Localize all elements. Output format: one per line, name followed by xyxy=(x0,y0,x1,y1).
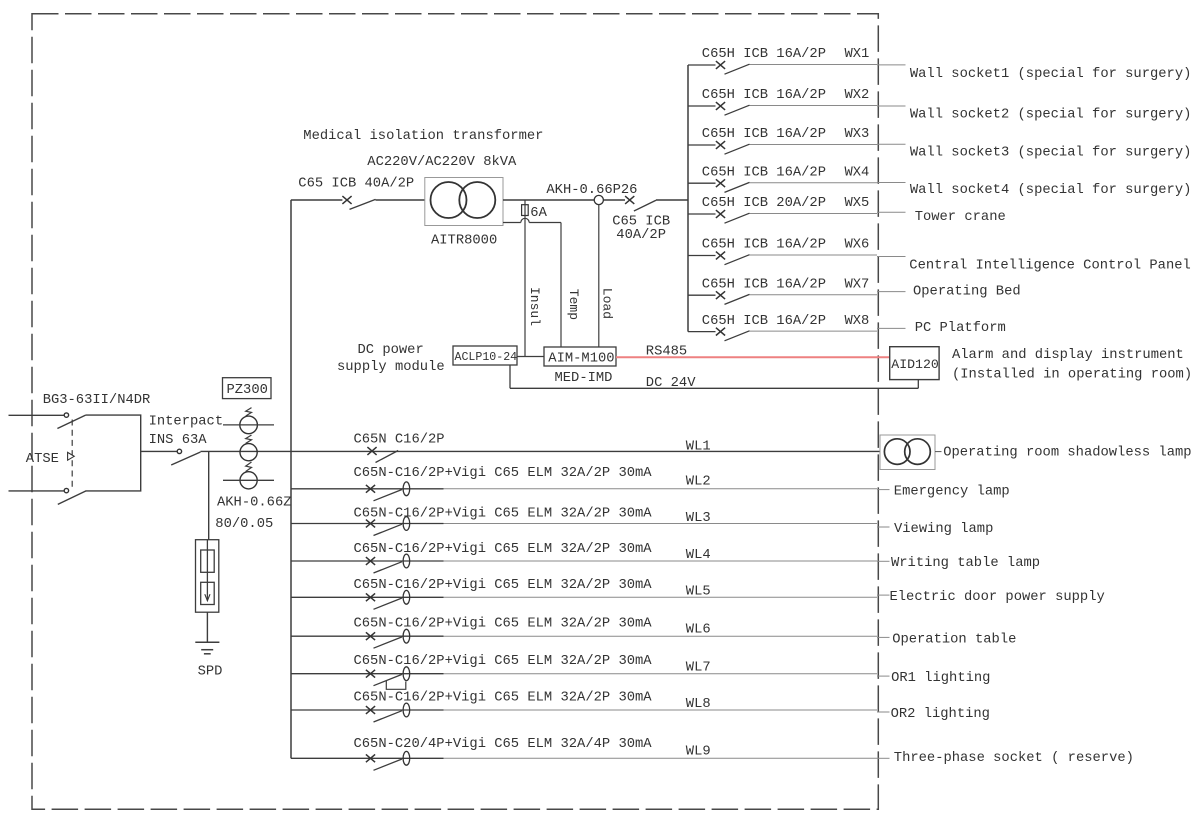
svg-text:C65N-C16/2P+Vigi C65 ELM 32A/2: C65N-C16/2P+Vigi C65 ELM 32A/2P 30mA xyxy=(354,465,653,481)
breaker WL1 C65N C16/2P xyxy=(367,447,398,462)
svg-text:ATSE: ATSE xyxy=(26,452,59,467)
svg-text:C65N-C16/2P+Vigi C65 ELM 32A/2: C65N-C16/2P+Vigi C65 ELM 32A/2P 30mA xyxy=(354,616,653,632)
svg-text:Temp: Temp xyxy=(566,289,581,320)
breaker C65 ICB 40A/2P secondary xyxy=(625,196,688,211)
branch WL6 wire xyxy=(291,635,444,637)
svg-text:AID120: AID120 xyxy=(891,357,939,372)
wire lamp to label xyxy=(935,451,942,453)
svg-text:C65N-C16/2P+Vigi C65 ELM 32A/2: C65N-C16/2P+Vigi C65 ELM 32A/2P 30mA xyxy=(354,689,653,705)
wire transformer secondary xyxy=(503,199,625,201)
wire RS485 (red) xyxy=(616,356,890,358)
wire ATSE output xyxy=(141,450,178,452)
wire WL6 leader xyxy=(877,636,890,638)
current transformer AKH-0.66P26 xyxy=(594,195,603,204)
svg-text:INS 63A: INS 63A xyxy=(149,433,208,448)
breaker WL7 C65N-C16/2P+Vigi C65 ELM 32A/2P 30mA xyxy=(366,670,402,686)
svg-text:Alarm and display instrument: Alarm and display instrument xyxy=(952,347,1184,363)
svg-text:Operating room shadowless lamp: Operating room shadowless lamp xyxy=(943,444,1191,460)
svg-text:Emergency lamp: Emergency lamp xyxy=(894,483,1010,499)
breaker WL9 C65N-C20/4P+Vigi C65 ELM 32A/4P 30mA xyxy=(366,754,402,770)
svg-text:C65N-C16/2P+Vigi C65 ELM 32A/2: C65N-C16/2P+Vigi C65 ELM 32A/2P 30mA xyxy=(354,541,653,557)
svg-text:C65H ICB 16A/2P: C65H ICB 16A/2P xyxy=(702,126,826,142)
RCD Vigi ellipse WL7 xyxy=(403,667,410,681)
surge protective device SPD xyxy=(196,540,219,613)
svg-text:40A/2P: 40A/2P xyxy=(616,227,666,243)
label C65H ICB 16A/2P WX4 xyxy=(702,164,870,180)
svg-text:C65H ICB 16A/2P: C65H ICB 16A/2P xyxy=(702,313,826,329)
wire to SPD xyxy=(208,451,210,539)
svg-text:WX1: WX1 xyxy=(845,47,870,62)
RCD Vigi ellipse WL5 xyxy=(403,590,410,604)
svg-text:PZ300: PZ300 xyxy=(227,383,268,398)
label C65H ICB 16A/2P WX2 xyxy=(702,87,870,103)
label C65H ICB 16A/2P WX8 xyxy=(702,313,870,329)
svg-text:WX7: WX7 xyxy=(845,277,870,292)
current transformer CT1 xyxy=(223,408,274,434)
svg-text:WL2: WL2 xyxy=(686,475,711,490)
svg-text:WL5: WL5 xyxy=(686,585,711,600)
insulation monitor AIM-M100 xyxy=(544,347,616,366)
distribution cabinet boundary (dashed frame) xyxy=(32,14,878,810)
label C65H ICB 16A/2P WX6 xyxy=(702,237,870,253)
wire Load line xyxy=(598,205,600,347)
svg-text:C65N-C16/2P+Vigi C65 ELM 32A/2: C65N-C16/2P+Vigi C65 ELM 32A/2P 30mA xyxy=(354,577,653,593)
label C65H ICB 16A/2P WX7 xyxy=(702,276,870,292)
svg-text:AKH-0.66Z: AKH-0.66Z xyxy=(217,496,292,511)
wire main bus horizontal xyxy=(201,450,881,452)
svg-text:C65N-C16/2P+Vigi C65 ELM 32A/2: C65N-C16/2P+Vigi C65 ELM 32A/2P 30mA xyxy=(354,505,653,521)
svg-text:WX4: WX4 xyxy=(845,165,870,180)
current transformer CT3 xyxy=(223,462,274,489)
wire WX4 to load label xyxy=(750,182,906,184)
branch WX4 wire xyxy=(688,182,716,184)
wire WX8 to load label xyxy=(750,328,906,331)
wire WL7 leader xyxy=(877,675,890,677)
svg-text:WL4: WL4 xyxy=(686,548,711,563)
RCD Vigi ellipse WL4 xyxy=(403,554,410,568)
svg-text:WX5: WX5 xyxy=(845,196,870,211)
wire WL8 leader xyxy=(877,711,890,713)
wire WX3 to load label xyxy=(750,143,906,145)
wire WL9 leader xyxy=(877,757,890,759)
wire WX6 to load label xyxy=(750,255,906,257)
svg-text:WX2: WX2 xyxy=(845,88,870,103)
branch WL2 wire xyxy=(291,488,444,490)
breaker WL2 C65N-C16/2P+Vigi C65 ELM 32A/2P 30mA xyxy=(366,485,402,501)
breaker WL3 C65N-C16/2P+Vigi C65 ELM 32A/2P 30mA xyxy=(366,520,402,536)
wire Temp line with hop over Insul xyxy=(503,218,561,347)
label C65H ICB 16A/2P WX1 xyxy=(702,46,870,62)
svg-text:WL3: WL3 xyxy=(686,511,711,526)
svg-text:WL9: WL9 xyxy=(686,745,711,760)
svg-text:C65H ICB 16A/2P: C65H ICB 16A/2P xyxy=(702,87,826,103)
svg-text:Writing table lamp: Writing table lamp xyxy=(891,555,1040,571)
RCD Vigi ellipse WL6 xyxy=(403,629,410,643)
svg-text:C65N C16/2P: C65N C16/2P xyxy=(354,431,445,447)
branch WX2 wire xyxy=(688,105,716,107)
svg-text:AITR8000: AITR8000 xyxy=(431,234,497,249)
svg-text:Operation table: Operation table xyxy=(892,631,1016,647)
svg-text:supply module: supply module xyxy=(337,359,445,375)
svg-text:AKH-0.66P26: AKH-0.66P26 xyxy=(546,183,637,198)
svg-text:Electric door power supply: Electric door power supply xyxy=(890,589,1105,605)
meter PZ300 xyxy=(223,378,272,399)
wire WX5 to load label xyxy=(750,212,906,213)
branch WX6 wire xyxy=(688,255,716,257)
svg-text:WL1: WL1 xyxy=(686,439,711,454)
svg-text:AIM-M100: AIM-M100 xyxy=(548,352,614,367)
svg-text:MED-IMD: MED-IMD xyxy=(555,371,613,386)
svg-text:Wall socket2 (special for surg: Wall socket2 (special for surgery) xyxy=(910,107,1192,123)
breaker WL5 C65N-C16/2P+Vigi C65 ELM 32A/2P 30mA xyxy=(366,593,402,609)
wire SPD to ground xyxy=(206,612,208,642)
breaker C65 ICB 40A/2P primary xyxy=(291,196,425,209)
svg-text:(Installed in operating room): (Installed in operating room) xyxy=(952,367,1192,383)
breaker WX2 C65H ICB 16A/2P xyxy=(716,102,750,115)
wire WX1 to load label xyxy=(750,64,906,66)
svg-text:PC Platform: PC Platform xyxy=(915,320,1006,336)
current transformer CT2 xyxy=(240,435,257,461)
branch WX5 wire xyxy=(688,213,716,215)
svg-text:C65H ICB 16A/2P: C65H ICB 16A/2P xyxy=(702,164,826,180)
wire incoming supply 2 xyxy=(9,490,65,492)
svg-text:Interpact: Interpact xyxy=(149,415,224,430)
interlock linkage WL7-WL8 xyxy=(386,681,406,690)
breaker WX8 C65H ICB 16A/2P xyxy=(716,328,750,341)
svg-text:C65N-C20/4P+Vigi C65 ELM 32A/4: C65N-C20/4P+Vigi C65 ELM 32A/4P 30mA xyxy=(354,736,653,752)
branch WX1 wire xyxy=(688,64,716,66)
isolation transformer AITR8000 xyxy=(425,178,503,226)
svg-text:WL8: WL8 xyxy=(686,697,711,712)
svg-text:OR2 lighting: OR2 lighting xyxy=(891,706,990,722)
svg-text:C65 ICB 40A/2P: C65 ICB 40A/2P xyxy=(298,176,414,192)
svg-text:Operating Bed: Operating Bed xyxy=(913,284,1021,300)
breaker WX7 C65H ICB 16A/2P xyxy=(716,291,750,304)
breaker WX5 C65H ICB 20A/2P xyxy=(716,210,750,223)
vertical bus xyxy=(290,200,292,759)
branch WL7 wire xyxy=(291,673,444,675)
wire DC 24V xyxy=(510,365,918,388)
svg-text:ACLP10-24: ACLP10-24 xyxy=(455,351,518,364)
breaker WL4 C65N-C16/2P+Vigi C65 ELM 32A/2P 30mA xyxy=(366,557,402,573)
breaker WX4 C65H ICB 16A/2P xyxy=(716,179,750,192)
svg-text:DC 24V: DC 24V xyxy=(646,376,696,391)
branch WL3 wire xyxy=(291,523,444,525)
branch WL9 wire xyxy=(291,757,444,759)
wire ACLP to AIM xyxy=(517,356,544,358)
label C65H ICB 16A/2P WX3 xyxy=(702,126,870,142)
svg-text:WL6: WL6 xyxy=(686,623,711,638)
isolator INS 63A xyxy=(171,449,200,465)
branch WL4 wire xyxy=(291,560,444,562)
RCD Vigi ellipse WL9 xyxy=(403,751,410,765)
ATSE transfer switch Q1 xyxy=(57,413,140,505)
wire WL3 leader xyxy=(877,526,890,528)
svg-text:C65N-C16/2P+Vigi C65 ELM 32A/2: C65N-C16/2P+Vigi C65 ELM 32A/2P 30mA xyxy=(354,653,653,669)
branch WL8 wire xyxy=(291,709,444,711)
svg-text:WL7: WL7 xyxy=(686,660,711,675)
svg-text:Insul: Insul xyxy=(527,287,542,326)
svg-text:WX8: WX8 xyxy=(845,314,870,329)
svg-text:RS485: RS485 xyxy=(646,345,687,360)
svg-text:WX6: WX6 xyxy=(845,238,870,253)
breaker WL8 C65N-C16/2P+Vigi C65 ELM 32A/2P 30mA xyxy=(366,706,402,722)
svg-text:C65H ICB 16A/2P: C65H ICB 16A/2P xyxy=(702,46,826,62)
label C65H ICB 20A/2P WX5 xyxy=(702,195,870,211)
breaker WX3 C65H ICB 16A/2P xyxy=(716,141,750,154)
fuse 6A with Insul line xyxy=(522,200,529,357)
branch WX8 wire xyxy=(688,331,716,333)
RCD Vigi ellipse WL8 xyxy=(403,703,410,717)
wire WL2 leader xyxy=(877,489,890,491)
svg-text:AC220V/AC220V 8kVA: AC220V/AC220V 8kVA xyxy=(367,154,517,170)
svg-text:Three-phase socket ( reserve): Three-phase socket ( reserve) xyxy=(894,750,1134,766)
RCD Vigi ellipse WL2 xyxy=(403,482,410,496)
svg-text:Central Intelligence Control P: Central Intelligence Control Panel xyxy=(909,257,1191,273)
alarm display AID120 xyxy=(890,347,939,380)
wire incoming supply 1 xyxy=(9,414,65,416)
ground symbol xyxy=(195,642,219,654)
wire WL4 leader xyxy=(877,560,890,562)
svg-text:Medical isolation transformer: Medical isolation transformer xyxy=(303,128,543,144)
svg-text:6A: 6A xyxy=(530,206,547,221)
breaker WX6 C65H ICB 16A/2P xyxy=(716,252,750,265)
svg-text:OR1 lighting: OR1 lighting xyxy=(891,670,990,686)
breaker WX1 C65H ICB 16A/2P xyxy=(716,61,750,74)
svg-text:SPD: SPD xyxy=(198,665,223,680)
WX distribution bus xyxy=(687,65,689,332)
svg-text:WX3: WX3 xyxy=(845,127,870,142)
svg-text:Viewing lamp: Viewing lamp xyxy=(894,521,993,537)
branch WX7 wire xyxy=(688,294,716,296)
wire WL5 leader xyxy=(877,594,890,596)
wire WX2 to load label xyxy=(750,105,906,108)
operating room shadowless lamp symbol xyxy=(880,435,935,470)
svg-text:BG3-63II/N4DR: BG3-63II/N4DR xyxy=(43,392,151,408)
svg-text:Wall socket4 (special for surg: Wall socket4 (special for surgery) xyxy=(910,182,1192,198)
RCD Vigi ellipse WL3 xyxy=(403,517,410,531)
svg-text:C65H ICB 20A/2P: C65H ICB 20A/2P xyxy=(702,195,826,211)
branch WL5 wire xyxy=(291,596,444,598)
svg-text:C65H ICB 16A/2P: C65H ICB 16A/2P xyxy=(702,237,826,253)
DC power module ACLP10-24 xyxy=(453,346,517,365)
svg-text:Wall socket3 (special for surg: Wall socket3 (special for surgery) xyxy=(910,144,1192,160)
svg-text:DC power: DC power xyxy=(358,343,424,358)
svg-text:Load: Load xyxy=(600,288,615,319)
breaker WL6 C65N-C16/2P+Vigi C65 ELM 32A/2P 30mA xyxy=(366,632,402,648)
svg-text:Tower crane: Tower crane xyxy=(915,210,1006,225)
svg-text:C65H ICB 16A/2P: C65H ICB 16A/2P xyxy=(702,276,826,292)
svg-text:Wall socket1 (special for surg: Wall socket1 (special for surgery) xyxy=(910,66,1192,82)
wire WX7 to load label xyxy=(750,292,906,295)
branch WX3 wire xyxy=(688,144,716,146)
svg-text:80/0.05: 80/0.05 xyxy=(215,516,273,532)
